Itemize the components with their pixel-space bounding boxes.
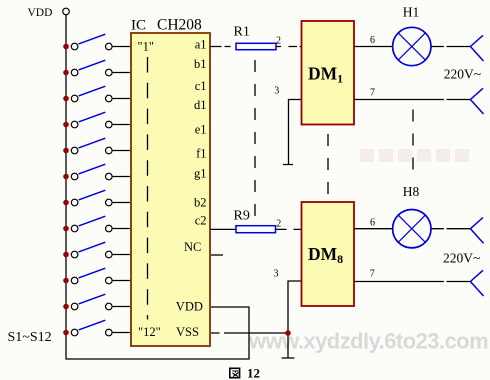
svg-text:c2: c2 xyxy=(195,214,207,228)
svg-text:VDD: VDD xyxy=(28,7,53,19)
svg-text:S1~S12: S1~S12 xyxy=(8,330,52,345)
svg-text:g1: g1 xyxy=(194,167,207,181)
svg-text:f1: f1 xyxy=(196,147,206,161)
svg-text:H1: H1 xyxy=(403,5,420,20)
svg-text:b1: b1 xyxy=(194,57,207,71)
svg-text:2: 2 xyxy=(276,218,281,229)
svg-text:3: 3 xyxy=(274,86,279,97)
svg-text:CH208: CH208 xyxy=(157,17,202,34)
svg-text:6: 6 xyxy=(370,35,375,46)
svg-text:7: 7 xyxy=(370,88,375,99)
svg-text:R9: R9 xyxy=(234,209,250,224)
svg-text:b2: b2 xyxy=(194,196,207,210)
svg-text:7: 7 xyxy=(370,269,375,280)
svg-text:NC: NC xyxy=(184,240,201,254)
svg-text:220V~: 220V~ xyxy=(444,67,481,82)
svg-text:2: 2 xyxy=(276,36,281,47)
svg-text:e1: e1 xyxy=(195,123,207,137)
svg-text:IC: IC xyxy=(131,18,146,34)
svg-text:H8: H8 xyxy=(403,184,420,199)
svg-text:www.xydzdly.6to23.com: www.xydzdly.6to23.com xyxy=(248,329,488,354)
svg-text:d1: d1 xyxy=(194,98,207,112)
svg-text:VSS: VSS xyxy=(176,325,199,339)
svg-text:VDD: VDD xyxy=(176,300,203,314)
svg-text:220V~: 220V~ xyxy=(443,251,480,266)
svg-text:c1: c1 xyxy=(195,79,207,93)
svg-text:"12": "12" xyxy=(138,325,161,339)
svg-text:"1": "1" xyxy=(138,40,154,54)
svg-text:12: 12 xyxy=(247,366,260,380)
svg-text:R1: R1 xyxy=(234,25,250,40)
svg-text:a1: a1 xyxy=(195,38,207,52)
svg-text:6: 6 xyxy=(370,218,375,229)
svg-text:3: 3 xyxy=(274,269,279,280)
